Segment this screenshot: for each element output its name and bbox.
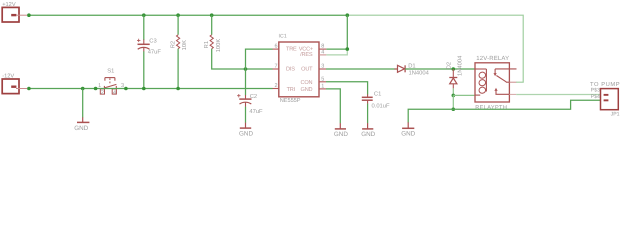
svg-text:2: 2 xyxy=(274,83,277,89)
pin stub 8 xyxy=(319,48,326,50)
svg-text:NE555P: NE555P xyxy=(280,98,301,104)
svg-text:C3: C3 xyxy=(149,38,156,45)
pin stub 6 xyxy=(273,48,279,50)
junction D2 top xyxy=(452,67,456,71)
svg-text:6: 6 xyxy=(274,44,277,50)
connector JP1 xyxy=(601,89,619,110)
ground G4 xyxy=(362,123,373,129)
svg-text:P$4: P$4 xyxy=(591,94,600,100)
svg-text:OUT: OUT xyxy=(301,66,313,72)
svg-text:5: 5 xyxy=(321,76,324,82)
wire VCC pin to rail xyxy=(326,15,347,49)
wire CON to C1 xyxy=(326,82,368,95)
junction gnd drop xyxy=(81,87,85,91)
svg-text:RELAYPTH: RELAYPTH xyxy=(475,105,507,111)
resistor R2 xyxy=(177,35,180,49)
svg-text:R2: R2 xyxy=(170,41,177,48)
junction coil bottom xyxy=(452,94,456,98)
wire -12V rail xyxy=(29,88,96,90)
svg-text:DIS: DIS xyxy=(286,66,295,72)
junction VCC RES xyxy=(346,47,350,51)
wire C3 column bottom xyxy=(143,51,145,88)
wire C2 bottom xyxy=(245,107,247,123)
junction switch left xyxy=(94,87,98,91)
svg-text:2: 2 xyxy=(101,90,104,96)
ground G3 xyxy=(335,123,346,129)
svg-text:TRE: TRE xyxy=(286,46,297,52)
svg-text:S1: S1 xyxy=(107,67,114,74)
wire gnd drop xyxy=(82,89,84,118)
svg-text:4: 4 xyxy=(113,90,116,96)
svg-text:47uF: 47uF xyxy=(148,50,162,56)
capacitor C3 polarized xyxy=(137,39,150,52)
pin stub 7 xyxy=(273,68,279,70)
wire R1 column top xyxy=(211,15,213,35)
svg-text:GND: GND xyxy=(334,131,348,138)
svg-text:CON: CON xyxy=(301,80,313,86)
relay coil xyxy=(475,69,486,95)
svg-text:47uF: 47uF xyxy=(249,109,263,115)
junction -12V terminal xyxy=(27,87,31,91)
pin stub 3 xyxy=(319,68,326,70)
wire +12V top rail xyxy=(29,14,347,16)
relay 12V-RELAY box xyxy=(475,63,509,102)
wire OUT to D1 xyxy=(326,68,398,70)
pin stub 4 pale xyxy=(319,54,326,56)
svg-text:GND: GND xyxy=(239,131,253,138)
svg-text:4: 4 xyxy=(321,50,324,56)
svg-text:R1: R1 xyxy=(204,41,210,48)
svg-text:1N4004: 1N4004 xyxy=(457,55,464,76)
svg-text:GND: GND xyxy=(301,87,313,93)
wire coil bottom xyxy=(453,94,475,96)
wire C1 bottom xyxy=(367,104,369,124)
junction trigger C3 xyxy=(142,87,146,91)
wire relay NO to JP1 pale xyxy=(516,94,600,96)
pin stub 2 xyxy=(273,88,279,90)
wire C3 column top xyxy=(143,15,145,40)
svg-text:GND: GND xyxy=(401,131,415,138)
svg-text:+12V: +12V xyxy=(2,2,16,8)
wire +12V rail pale segment into relay common xyxy=(347,15,523,82)
wire R1 bottom to DIS xyxy=(212,49,273,69)
ground G5 xyxy=(402,122,414,128)
ground G2 xyxy=(240,123,251,129)
junction rail at +12V terminal xyxy=(27,13,31,17)
supply terminal +12V xyxy=(2,7,27,22)
svg-text:10K: 10K xyxy=(181,40,188,50)
wire trigger rail xyxy=(96,88,273,90)
svg-text:GND: GND xyxy=(361,131,375,138)
junction rail VCC xyxy=(346,13,350,17)
svg-text:P$3: P$3 xyxy=(591,88,600,94)
svg-text:IC1: IC1 xyxy=(279,33,287,39)
ground G1 xyxy=(77,117,89,122)
relay contact xyxy=(494,69,517,95)
svg-text:3: 3 xyxy=(321,64,324,70)
diode D2 xyxy=(449,69,457,95)
wire D2 to gnd rail xyxy=(452,95,454,109)
wire /RES pale xyxy=(326,49,347,55)
svg-text:1: 1 xyxy=(321,84,324,90)
svg-text:GND: GND xyxy=(74,125,88,132)
svg-text:C1: C1 xyxy=(374,90,381,97)
svg-text:TRI: TRI xyxy=(287,87,296,93)
wire D1 to relay coil xyxy=(405,68,475,70)
junction rail R2 xyxy=(176,13,180,17)
svg-text:-12V: -12V xyxy=(2,73,14,79)
resistor R1 xyxy=(210,35,213,49)
diode D1 xyxy=(394,65,408,72)
capacitor C1 xyxy=(362,94,373,104)
IC IC1 NE555P timer box xyxy=(279,42,319,97)
svg-text:1N4004: 1N4004 xyxy=(409,70,430,77)
junction DIS net xyxy=(244,67,248,71)
svg-text:7: 7 xyxy=(274,64,277,70)
svg-text:/RES: /RES xyxy=(300,51,313,58)
svg-text:0.01uF: 0.01uF xyxy=(372,103,391,110)
wire R2 column bottom xyxy=(177,49,179,89)
junction rail R1 xyxy=(210,13,214,17)
pin stub 1 xyxy=(319,88,326,90)
junction switch right xyxy=(124,87,128,91)
wire IC GND pin to ground xyxy=(326,89,340,123)
junction trigger R2 xyxy=(176,87,180,91)
junction rail C3 xyxy=(142,13,146,17)
capacitor C2 polarized xyxy=(237,94,251,107)
svg-text:C2: C2 xyxy=(250,93,257,100)
junction gnd rail xyxy=(452,107,456,111)
svg-text:JP1: JP1 xyxy=(611,112,620,118)
svg-text:100K: 100K xyxy=(215,39,222,53)
wire gnd rail bottom xyxy=(408,100,600,122)
pin stub 5 xyxy=(319,81,326,83)
svg-text:12V-RELAY: 12V-RELAY xyxy=(476,55,509,62)
svg-text:D2: D2 xyxy=(445,62,452,69)
supply terminal -12V xyxy=(2,79,27,94)
wire TRE corner down to C2 xyxy=(246,49,273,95)
switch S1 xyxy=(100,78,116,95)
wire R2 column top xyxy=(177,15,179,35)
